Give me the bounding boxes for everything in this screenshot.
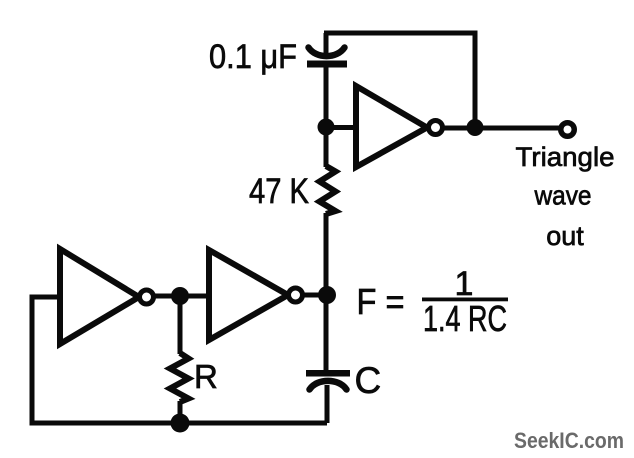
svg-text:C: C — [355, 360, 382, 401]
svg-text:SeekIC.com: SeekIC.com — [514, 428, 624, 453]
svg-text:Triangle: Triangle — [516, 142, 615, 172]
svg-text:47 K: 47 K — [249, 172, 309, 211]
svg-text:0.1 μF: 0.1 μF — [209, 38, 297, 76]
svg-text:1.4 RC: 1.4 RC — [423, 298, 507, 339]
svg-text:wave: wave — [534, 181, 592, 211]
svg-text:F =: F = — [357, 281, 405, 322]
svg-text:R: R — [194, 358, 218, 395]
svg-text:out: out — [546, 221, 584, 251]
